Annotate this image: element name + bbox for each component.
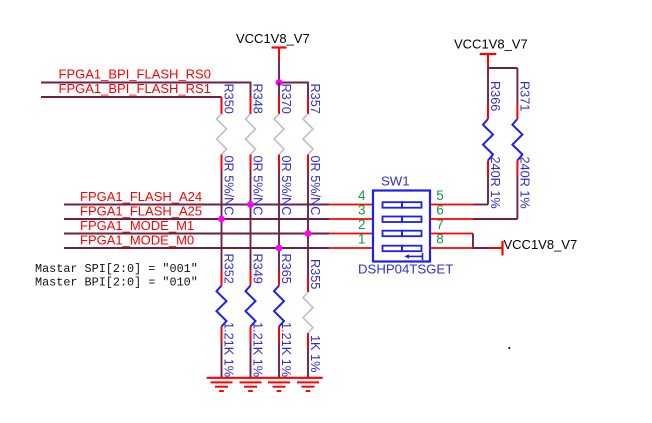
svg-text:FPGA1_FLASH_A24: FPGA1_FLASH_A24 [80, 189, 202, 204]
resistor R350 [217, 97, 227, 171]
svg-text:1: 1 [358, 232, 366, 247]
value label DSHP04TSGET [358, 262, 453, 277]
pin number 5 [436, 188, 444, 203]
svg-text:R371: R371 [517, 81, 531, 111]
svg-text:R349: R349 [251, 254, 265, 284]
svg-text:0R 5%/NC: 0R 5%/NC [251, 156, 265, 216]
ref label SW1 [381, 174, 410, 189]
ground (shared top bar) [207, 377, 323, 379]
junction node R357/M1 [305, 230, 312, 237]
svg-text:4: 4 [358, 188, 366, 203]
value label R355 1K 1% [308, 335, 322, 372]
svg-text:2: 2 [358, 217, 366, 232]
svg-text:FPGA1_MODE_M0: FPGA1_MODE_M0 [80, 233, 194, 248]
wire pin 5 to R366 [430, 204, 488, 206]
wire R350 vertical through buses [221, 171, 223, 271]
svg-text:R352: R352 [222, 254, 236, 284]
wire FPGA1_MODE_M1 [64, 233, 373, 235]
ref label R349 [251, 254, 265, 284]
pin number 3 [358, 203, 366, 218]
svg-text:FPGA1_FLASH_A25: FPGA1_FLASH_A25 [80, 204, 202, 219]
resistor R357 [303, 97, 313, 171]
switch actuator arrow [404, 253, 422, 260]
value label R352 1.21K 1% [222, 322, 236, 377]
resistor R355 [303, 277, 313, 378]
pin number 4 [358, 188, 366, 203]
switch element row 3 [383, 231, 422, 237]
wire pin 8 to VCC [430, 247, 503, 249]
pin number 2 [358, 217, 366, 232]
value label R348 0R 5%/NC [251, 156, 265, 216]
value label R349 1.21K 1% [251, 322, 265, 377]
wire VCC top right to R366/R371 [488, 67, 517, 104]
svg-text:SW1: SW1 [381, 174, 410, 189]
wire junction to R357 top [279, 83, 308, 98]
power symbol VCC1V8_V7 (top right) [454, 37, 528, 68]
wire VCC to junction [278, 59, 280, 83]
note text Mastar SPI [35, 262, 198, 276]
switch SW1 body [373, 191, 430, 262]
power symbol VCC1V8_V7 (right mid) [503, 237, 578, 256]
svg-text:5: 5 [436, 188, 444, 203]
svg-text:FPGA1_MODE_M1: FPGA1_MODE_M1 [80, 218, 194, 233]
svg-text:Mastar SPI[2:0] = "001": Mastar SPI[2:0] = "001" [35, 262, 198, 276]
junction node at VCC/R370/R357 [276, 79, 283, 86]
resistor R349 [246, 270, 256, 378]
wire R370 vertical through buses [278, 83, 280, 271]
pin number 8 [436, 232, 444, 247]
net label FPGA1_BPI_FLASH_RS1 [59, 81, 211, 96]
resistor R365 [274, 270, 284, 378]
junction node R348/A24 [247, 201, 254, 208]
svg-text:1.21K 1%: 1.21K 1% [279, 322, 293, 377]
value label R370 0R 5%/NC [279, 156, 293, 216]
svg-text:FPGA1_BPI_FLASH_RS0: FPGA1_BPI_FLASH_RS0 [59, 67, 211, 82]
svg-text:1.21K 1%: 1.21K 1% [251, 322, 265, 377]
junction node R350/A25 [218, 216, 225, 223]
svg-text:240R 1%: 240R 1% [488, 157, 502, 209]
svg-text:DSHP04TSGET: DSHP04TSGET [358, 262, 453, 277]
switch element row 4 [383, 246, 422, 252]
pin number 6 [436, 203, 444, 218]
pin number 7 [436, 217, 444, 232]
resistor R370 [274, 97, 284, 171]
wire FPGA1_FLASH_A24 [64, 204, 373, 206]
svg-text:1.21K 1%: 1.21K 1% [222, 322, 236, 377]
wire pin 7 down to pin 8 net [430, 234, 473, 249]
resistor R352 [217, 270, 227, 378]
svg-text:R350: R350 [222, 84, 236, 114]
wire R357 vertical through buses [307, 171, 309, 277]
svg-text:R370: R370 [279, 84, 293, 114]
net label FPGA1_FLASH_A25 [80, 204, 202, 219]
stray ink dot [508, 347, 510, 349]
ref label R350 [222, 84, 236, 114]
resistor R371 [512, 104, 522, 220]
svg-text:Master BPI[2:0] = "010": Master BPI[2:0] = "010" [35, 276, 198, 290]
wire FPGA1_MODE_M0 [64, 247, 373, 249]
net label FPGA1_MODE_M0 [80, 233, 194, 248]
ground under R352 [211, 382, 233, 391]
svg-text:R366: R366 [488, 81, 502, 111]
ref label R370 [279, 84, 293, 114]
ref label R357 [308, 84, 322, 114]
ref label R348 [251, 84, 265, 114]
resistor R348 [246, 97, 256, 171]
wire R348 vertical through buses [250, 171, 252, 271]
svg-text:VCC1V8_V7: VCC1V8_V7 [504, 237, 578, 252]
ground under R349 [240, 382, 262, 391]
ref label R352 [222, 254, 236, 284]
net label FPGA1_MODE_M1 [80, 218, 194, 233]
net label FPGA1_BPI_FLASH_RS0 [59, 67, 211, 82]
ref label R365 [279, 254, 293, 284]
ref label R371 [517, 81, 531, 111]
value label R350 0R 5%/NC [222, 156, 236, 216]
svg-text:VCC1V8_V7: VCC1V8_V7 [454, 37, 528, 52]
svg-text:1K 1%: 1K 1% [308, 335, 322, 372]
svg-text:R355: R355 [308, 259, 322, 289]
svg-text:R357: R357 [308, 84, 322, 114]
svg-text:R348: R348 [251, 84, 265, 114]
power symbol VCC1V8_V7 (top center) [236, 31, 310, 59]
wire FPGA1_FLASH_A25 [64, 218, 373, 220]
value label R357 0R 5%/NC [308, 156, 322, 216]
svg-text:3: 3 [358, 203, 366, 218]
svg-text:0R 5%/NC: 0R 5%/NC [222, 156, 236, 216]
ground under R365 [268, 382, 290, 391]
wire pin 6 to R371 [430, 218, 517, 220]
svg-text:240R 1%: 240R 1% [517, 157, 531, 209]
net label FPGA1_FLASH_A24 [80, 189, 202, 204]
junction node R370/M0 [276, 245, 283, 252]
wire FPGA1_BPI_FLASH_RS0 [41, 83, 251, 98]
switch element row 2 [383, 217, 422, 223]
svg-text:VCC1V8_V7: VCC1V8_V7 [236, 31, 310, 46]
ref label R355 [308, 259, 322, 289]
note text Master BPI [35, 276, 198, 290]
wire FPGA1_BPI_FLASH_RS1 [41, 96, 222, 98]
resistor R366 [483, 104, 493, 205]
value label R365 1.21K 1% [279, 322, 293, 377]
svg-text:FPGA1_BPI_FLASH_RS1: FPGA1_BPI_FLASH_RS1 [59, 81, 211, 96]
pin number 1 [358, 232, 366, 247]
ground under R355 [297, 382, 319, 391]
svg-text:R365: R365 [279, 254, 293, 284]
value label R366 240R 1% [488, 157, 502, 209]
svg-text:0R 5%/NC: 0R 5%/NC [308, 156, 322, 216]
svg-text:0R 5%/NC: 0R 5%/NC [279, 156, 293, 216]
switch element row 1 [383, 202, 422, 208]
value label R371 240R 1% [517, 157, 531, 209]
ref label R366 [488, 81, 502, 111]
